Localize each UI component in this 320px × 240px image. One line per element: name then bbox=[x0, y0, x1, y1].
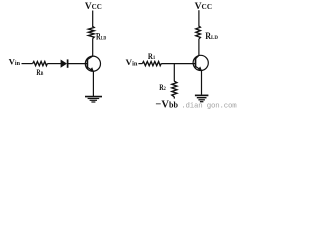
svg-text:.dian gon.com: .dian gon.com bbox=[181, 103, 237, 111]
svg-text:RLD: RLD bbox=[205, 31, 218, 41]
svg-text:Vin: Vin bbox=[9, 58, 21, 68]
svg-text:VCC: VCC bbox=[195, 2, 213, 12]
svg-text:RLD: RLD bbox=[96, 33, 106, 43]
svg-text:VCC: VCC bbox=[85, 1, 102, 12]
svg-text:−Vbb: −Vbb bbox=[155, 99, 178, 111]
svg-text:R1: R1 bbox=[148, 52, 156, 61]
svg-text:RB: RB bbox=[36, 68, 43, 77]
svg-text:Vin: Vin bbox=[126, 58, 139, 68]
svg-text:R2: R2 bbox=[159, 83, 166, 92]
